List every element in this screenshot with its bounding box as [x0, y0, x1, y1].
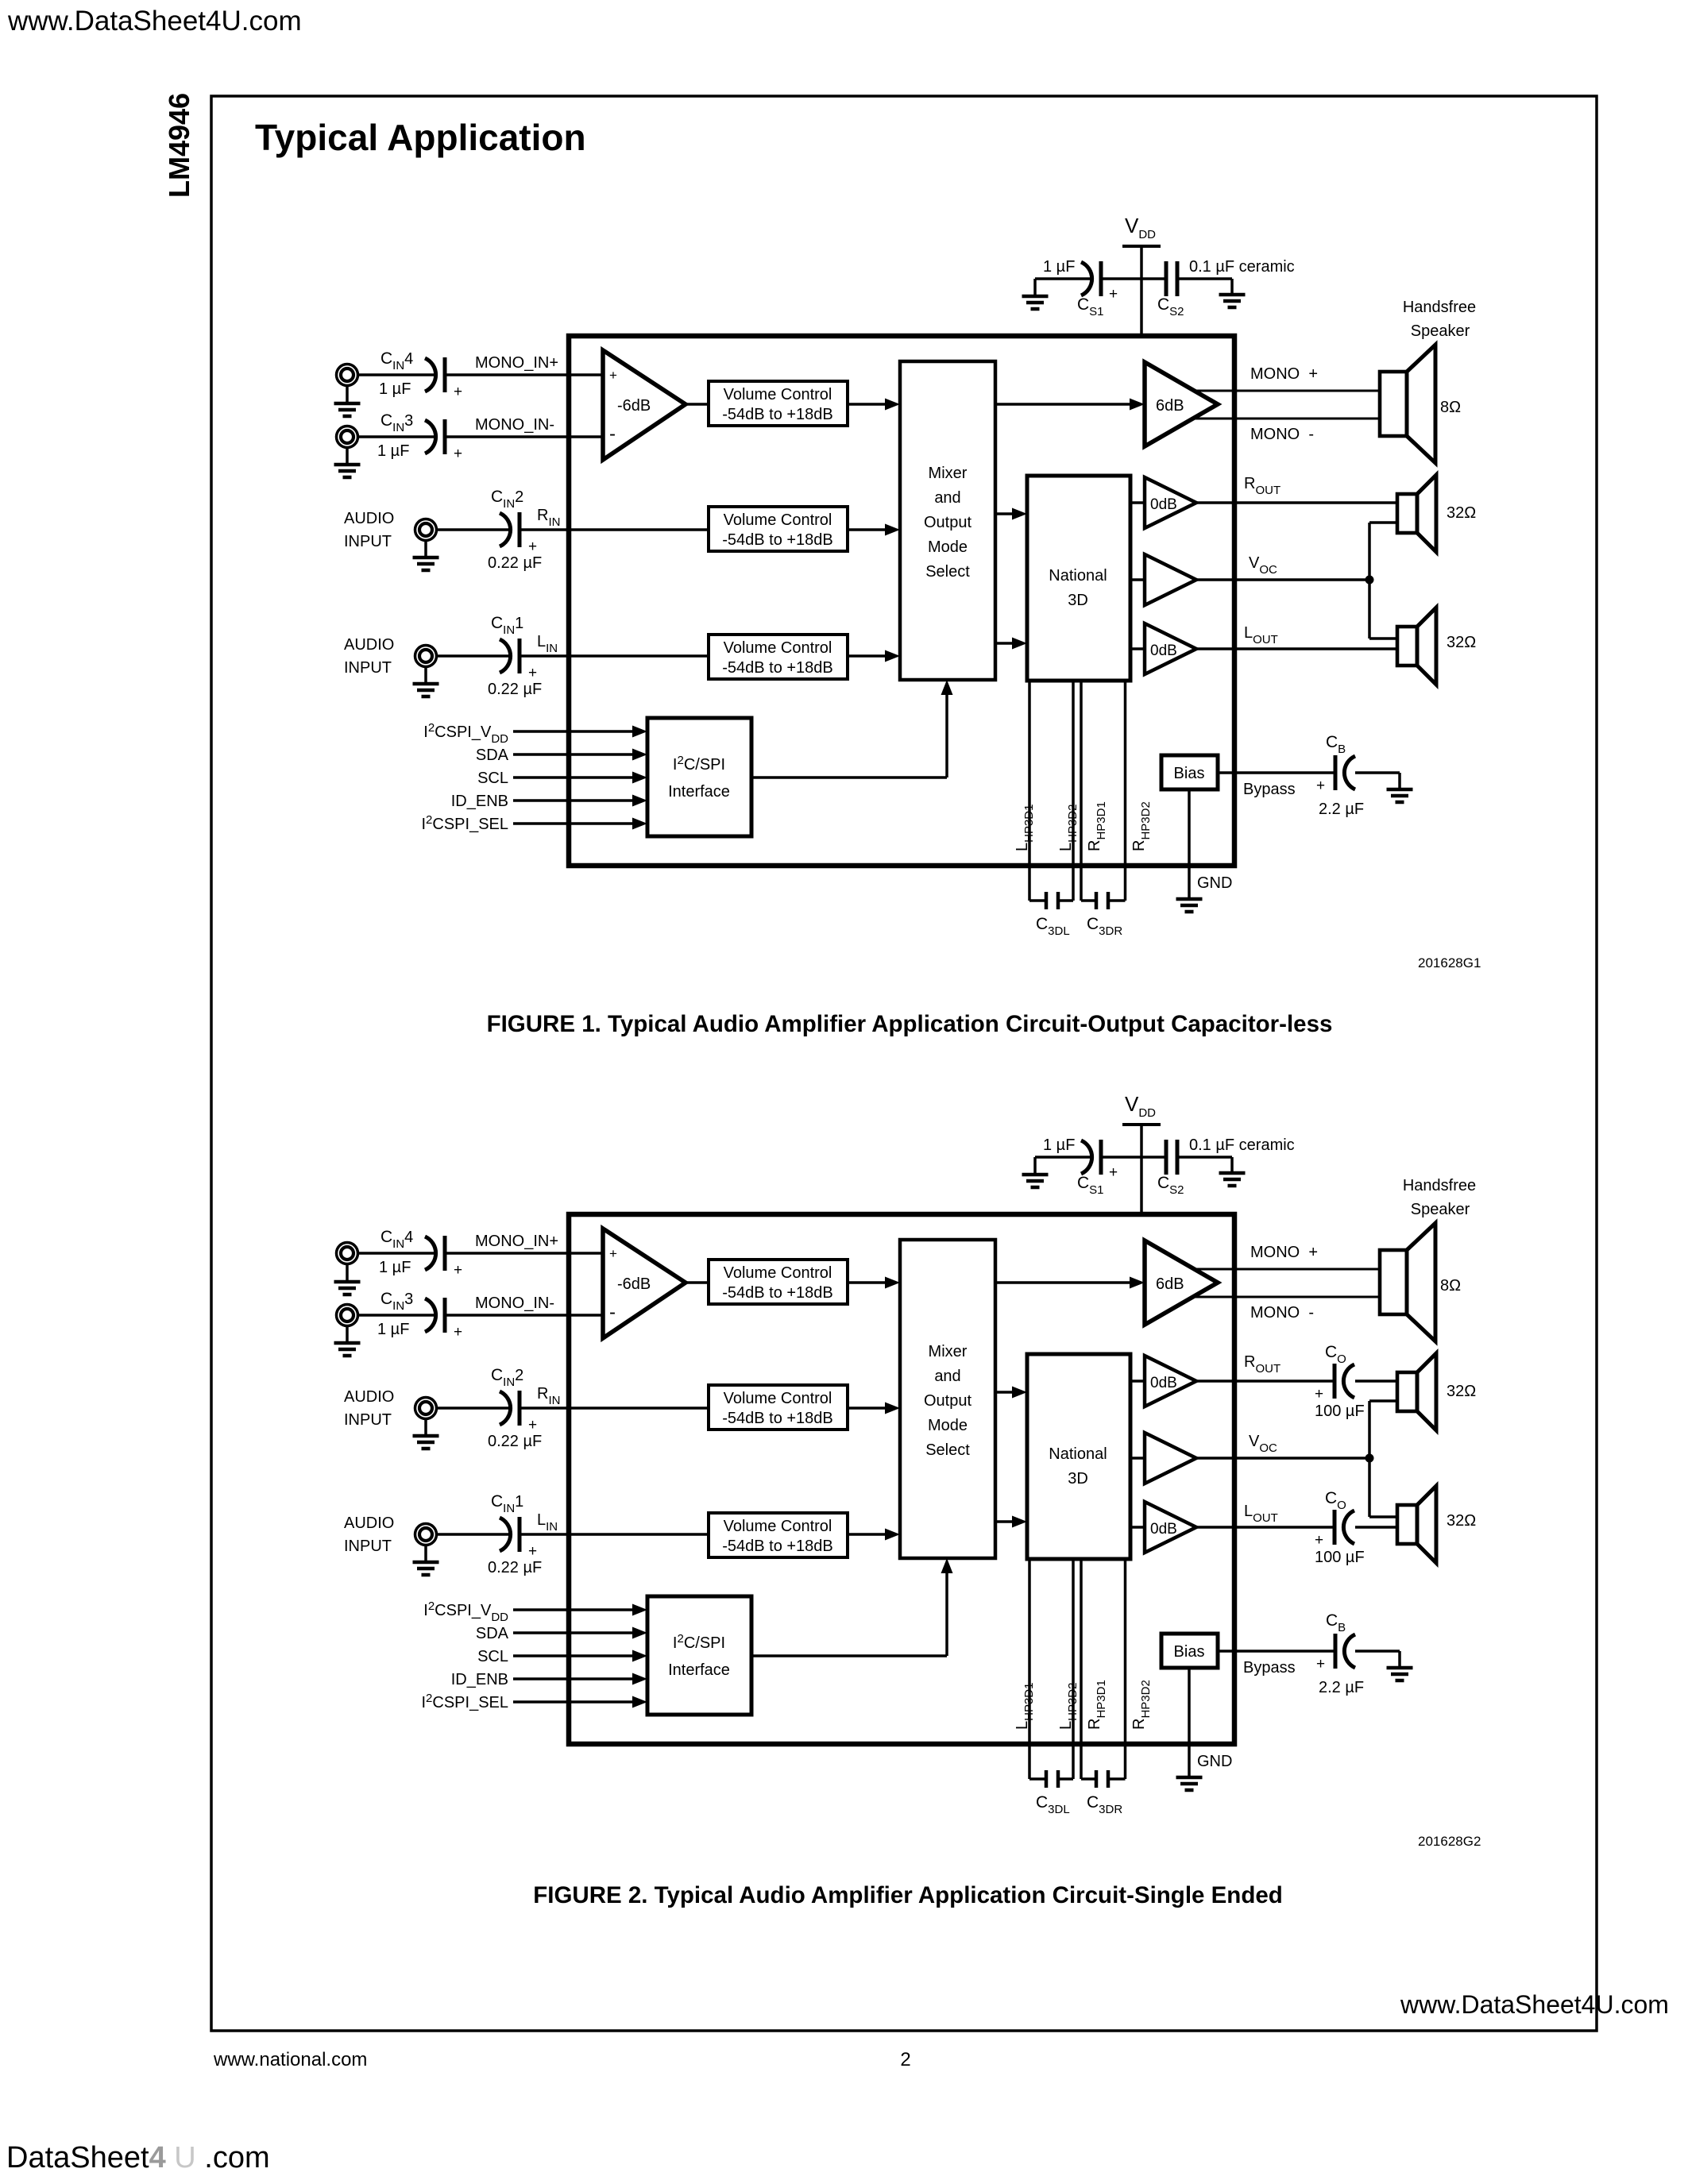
speaker SPK3 32ohm left (fig1): [1397, 608, 1436, 685]
svg-text:INPUT: INPUT: [344, 533, 392, 550]
wire MONO_IN+ (fig1): [445, 373, 603, 376]
ground at CS2 (fig2): [1219, 1157, 1246, 1186]
svg-text:8Ω: 8Ω: [1440, 399, 1461, 416]
wire+arrow mixer to 3D upper (fig1): [995, 512, 1015, 515]
wire Bypass (fig1): [1218, 771, 1335, 774]
wire+arrow VC2 to mixer (fig1): [848, 528, 888, 531]
wire VOC to SPK3 (fig1): [1368, 580, 1371, 639]
svg-text:0.22 µF: 0.22 µF: [488, 681, 542, 698]
capacitor CIN4 (fig1): [425, 357, 445, 392]
svg-text:32Ω: 32Ω: [1447, 504, 1476, 522]
block Volume Control 1 (fig1): [709, 381, 848, 426]
svg-text:+: +: [1109, 286, 1118, 303]
capacitor CS1 (fig2): [1081, 1140, 1101, 1175]
capacitor CB (fig1): [1335, 755, 1355, 790]
pin line LHP3D2 (fig2): [1072, 1559, 1075, 1779]
svg-text:32Ω: 32Ω: [1447, 1383, 1476, 1400]
svg-text:32Ω: 32Ω: [1447, 634, 1476, 651]
capacitor CB (fig2): [1335, 1634, 1355, 1669]
wire+arrow VC2 to mixer (fig2): [848, 1406, 888, 1410]
wire+arrow I2CSPI_SEL input (fig2): [513, 1700, 635, 1704]
svg-text:Handsfree: Handsfree: [1403, 1177, 1476, 1194]
svg-text:+: +: [454, 1262, 462, 1279]
svg-text:AUDIO: AUDIO: [344, 510, 394, 527]
svg-text:www.national.com: www.national.com: [213, 2049, 367, 2070]
ground at J4 (fig1): [334, 385, 361, 416]
svg-text:0dB: 0dB: [1150, 642, 1177, 659]
svg-text:-: -: [609, 423, 616, 445]
svg-text:0dB: 0dB: [1150, 1375, 1177, 1391]
svg-text:INPUT: INPUT: [344, 1411, 392, 1429]
svg-text:SCL: SCL: [477, 1648, 508, 1665]
wire J1 to CIN1 (fig1): [436, 654, 511, 658]
svg-text:Mode: Mode: [928, 538, 968, 556]
svg-text:1 µF: 1 µF: [377, 442, 409, 460]
wire+arrow SDA input (fig2): [513, 1631, 635, 1634]
wire Bypass (fig2): [1218, 1650, 1335, 1653]
svg-text:SDA: SDA: [476, 747, 509, 764]
speaker SPK2 32ohm right (fig1): [1397, 475, 1436, 552]
svg-text:Select: Select: [925, 1441, 970, 1459]
ground at CS2 (fig1): [1219, 279, 1246, 307]
VDD terminal bar (fig2): [1122, 1123, 1161, 1126]
svg-text:Output: Output: [924, 1392, 971, 1410]
svg-text:Volume Control: Volume Control: [724, 386, 832, 403]
pin line RHP3D1 (fig2): [1080, 1559, 1083, 1779]
svg-text:National: National: [1049, 567, 1107, 585]
capacitor CIN1 (fig1): [500, 639, 520, 673]
svg-text:+: +: [1316, 778, 1325, 794]
wire J1 to CIN1 (fig2): [436, 1533, 511, 1536]
wire MONO+ (fig2): [1194, 1268, 1380, 1271]
wire LOUT to CO2 (fig2): [1196, 1526, 1335, 1529]
svg-text:www.DataSheet4U.com: www.DataSheet4U.com: [1400, 1990, 1669, 2019]
input jack J1 LIN (fig1): [415, 646, 437, 667]
block Mixer and Output Mode Select (fig1): [900, 361, 995, 680]
wire VDD vertical (fig2): [1140, 1125, 1143, 1214]
svg-text:+: +: [609, 1246, 617, 1261]
wire A1 out (fig1): [686, 403, 709, 406]
block Volume Control 2 (fig1): [709, 507, 848, 551]
wire Bias to GND (fig1): [1188, 789, 1191, 899]
svg-text:and: and: [934, 1368, 960, 1385]
wire ROUT to CO1 (fig2): [1196, 1379, 1335, 1383]
svg-text:Mixer: Mixer: [929, 1343, 968, 1360]
pin line RHP3D1 (fig1): [1080, 681, 1083, 901]
wire+arrow I2CSPI_SEL input (fig1): [513, 822, 635, 825]
svg-text:MONO_IN+: MONO_IN+: [475, 1233, 558, 1250]
svg-text:National: National: [1049, 1445, 1107, 1463]
capacitor CS1 (fig1): [1081, 261, 1101, 296]
op-amp A4 VOC buffer (fig1): [1145, 554, 1196, 605]
svg-text:AUDIO: AUDIO: [344, 636, 394, 654]
wire 3D to A4 (fig2): [1130, 1457, 1145, 1460]
capacitor CS2 (fig2): [1166, 1140, 1177, 1175]
svg-text:INPUT: INPUT: [344, 659, 392, 677]
svg-text:32Ω: 32Ω: [1447, 1512, 1476, 1530]
svg-text:0.22 µF: 0.22 µF: [488, 554, 542, 572]
wire VDD vertical (fig1): [1140, 246, 1143, 336]
op-amp A1 -6dB (fig1): [603, 350, 686, 460]
block I2C/SPI Interface (fig2): [647, 1596, 751, 1715]
ground at J1 (fig2): [413, 1545, 439, 1575]
svg-text:+: +: [1109, 1164, 1118, 1181]
svg-text:-54dB to +18dB: -54dB to +18dB: [722, 1410, 833, 1427]
wire+arrow SDA input (fig1): [513, 753, 635, 756]
svg-text:0.1 µF ceramic: 0.1 µF ceramic: [1189, 258, 1295, 276]
svg-text:201628G2: 201628G2: [1418, 1834, 1481, 1849]
wire+arrow VC1 to mixer (fig1): [848, 403, 888, 406]
wire MONO- (fig1): [1194, 418, 1380, 420]
svg-text:FIGURE 1. Typical Audio Amplif: FIGURE 1. Typical Audio Amplifier Applic…: [487, 1011, 1333, 1037]
wire+arrow ID_ENB input (fig2): [513, 1677, 635, 1680]
wire RIN (fig1): [520, 528, 709, 531]
svg-text:Bias: Bias: [1174, 765, 1205, 782]
wire MONO_IN- (fig2): [445, 1314, 603, 1317]
svg-text:Speaker: Speaker: [1411, 322, 1470, 340]
ground GND (fig1): [1176, 899, 1203, 912]
svg-text:-54dB to +18dB: -54dB to +18dB: [722, 531, 833, 549]
op-amp A2 6dB (fig2): [1145, 1241, 1218, 1325]
input jack J2 RIN (fig2): [415, 1398, 437, 1419]
wire+arrow VC1 to mixer (fig2): [848, 1281, 888, 1284]
wire CO1 to SPK2 (fig2): [1355, 1379, 1397, 1383]
block I2C/SPI Interface (fig1): [647, 718, 751, 836]
block National 3D (fig2): [1027, 1354, 1130, 1559]
svg-text:0.1 µF ceramic: 0.1 µF ceramic: [1189, 1136, 1295, 1154]
svg-text:ID_ENB: ID_ENB: [451, 1671, 508, 1688]
svg-text:+: +: [528, 665, 537, 681]
svg-text:MONO +: MONO +: [1250, 1244, 1318, 1261]
pin line LHP3D1 (fig1): [1028, 681, 1031, 901]
svg-text:+: +: [1316, 1656, 1325, 1673]
wire 3D to A4 (fig1): [1130, 578, 1145, 581]
svg-text:+: +: [528, 1417, 537, 1433]
svg-text:MONO_IN-: MONO_IN-: [475, 1295, 554, 1312]
junction node VOC (fig1): [1365, 576, 1374, 585]
svg-text:Volume Control: Volume Control: [724, 1518, 832, 1535]
svg-text:GND: GND: [1197, 874, 1232, 892]
IC boundary box U1 (fig2): [569, 1214, 1234, 1744]
svg-text:Volume Control: Volume Control: [724, 1264, 832, 1282]
svg-text:+: +: [1315, 1532, 1323, 1549]
pin line RHP3D2 (fig2): [1124, 1559, 1127, 1779]
svg-text:Volume Control: Volume Control: [724, 511, 832, 529]
wire MONO- (fig2): [1194, 1296, 1380, 1298]
pin line LHP3D1 (fig2): [1028, 1559, 1031, 1779]
svg-text:FIGURE 2. Typical Audio Amplif: FIGURE 2. Typical Audio Amplifier Applic…: [533, 1882, 1283, 1908]
svg-text:+: +: [528, 538, 537, 555]
svg-text:3D: 3D: [1068, 592, 1088, 609]
svg-text:+: +: [454, 384, 462, 400]
svg-text:Bypass: Bypass: [1243, 1659, 1296, 1677]
wire LIN (fig1): [520, 654, 709, 658]
block National 3D (fig1): [1027, 476, 1130, 681]
ground at J2 (fig2): [413, 1418, 439, 1449]
pin line RHP3D2 (fig1): [1124, 681, 1127, 901]
svg-text:+: +: [528, 1543, 537, 1560]
capacitor CO2 (fig2): [1335, 1510, 1354, 1545]
input jack J1 LIN (fig2): [415, 1524, 437, 1545]
block Volume Control 3 (fig1): [709, 635, 848, 679]
svg-text:-: -: [609, 1302, 616, 1323]
capacitor CIN1 (fig2): [500, 1517, 520, 1552]
wire VOC (fig1): [1196, 578, 1369, 581]
speaker SPK2 32ohm right (fig2): [1397, 1353, 1436, 1430]
svg-text:0dB: 0dB: [1150, 496, 1177, 513]
svg-text:-54dB to +18dB: -54dB to +18dB: [722, 659, 833, 677]
svg-text:6dB: 6dB: [1156, 397, 1184, 415]
op-amp A3 0dB right (fig2): [1145, 1356, 1196, 1406]
capacitor CIN3 (fig1): [425, 419, 445, 454]
svg-text:201628G1: 201628G1: [1418, 955, 1481, 970]
VDD terminal bar (fig1): [1122, 245, 1161, 248]
op-amp A5 0dB left (fig1): [1145, 623, 1196, 674]
input jack J4 MONO_IN+ (fig1): [337, 365, 358, 386]
ground at CB (fig1): [1387, 789, 1413, 802]
speaker SPK1 8ohm (fig1): [1380, 345, 1435, 463]
wire LOUT (fig1): [1196, 647, 1397, 650]
svg-text:-6dB: -6dB: [617, 397, 651, 415]
svg-text:+: +: [454, 446, 462, 462]
wire+arrow VC3 to mixer (fig2): [848, 1533, 888, 1536]
svg-text:-54dB to +18dB: -54dB to +18dB: [722, 1538, 833, 1555]
wire J3 to CIN3 (fig2): [357, 1314, 436, 1317]
wire J2 to CIN2 (fig2): [436, 1406, 511, 1410]
svg-text:100 µF: 100 µF: [1315, 1549, 1365, 1566]
svg-text:6dB: 6dB: [1156, 1275, 1184, 1293]
wire+arrow mixer to 3D upper (fig2): [995, 1391, 1015, 1394]
capacitor CIN3 (fig2): [425, 1298, 445, 1333]
wire RIN (fig2): [520, 1406, 709, 1410]
svg-text:8Ω: 8Ω: [1440, 1277, 1461, 1295]
wire Bias to GND (fig2): [1188, 1668, 1191, 1777]
svg-text:www.DataSheet4U.com: www.DataSheet4U.com: [7, 6, 302, 37]
ground at J1 (fig1): [413, 666, 439, 696]
svg-text:1 µF: 1 µF: [379, 380, 411, 398]
wire VOC (fig2): [1196, 1457, 1369, 1460]
wire+arrow SCL input (fig2): [513, 1654, 635, 1657]
wire+arrow mixer to A2 (fig2): [995, 1281, 1133, 1284]
svg-text:1 µF: 1 µF: [1043, 258, 1075, 276]
IC boundary box U1 (fig1): [569, 336, 1234, 866]
capacitor CO1 (fig2): [1335, 1364, 1354, 1399]
input jack J3 MONO_IN- (fig1): [337, 426, 358, 448]
svg-text:AUDIO: AUDIO: [344, 1388, 394, 1406]
svg-text:MONO_IN+: MONO_IN+: [475, 354, 558, 372]
wire+arrow VC3 to mixer (fig1): [848, 654, 888, 658]
capacitor CS2 (fig1): [1166, 261, 1177, 296]
capacitor CIN2 (fig2): [500, 1391, 520, 1426]
wire CO2 to SPK3 (fig2): [1355, 1526, 1397, 1529]
svg-text:SCL: SCL: [477, 770, 508, 787]
svg-text:MONO_IN-: MONO_IN-: [475, 416, 554, 434]
svg-text:-54dB to +18dB: -54dB to +18dB: [722, 406, 833, 423]
speaker SPK3 32ohm left (fig2): [1397, 1486, 1436, 1563]
capacitor CIN4 (fig2): [425, 1236, 445, 1271]
wire J4 to CIN4 (fig1): [357, 373, 436, 376]
wire supply rail left (fig1): [1035, 277, 1091, 280]
capacitor CIN2 (fig1): [500, 512, 520, 547]
svg-text:1 µF: 1 µF: [1043, 1136, 1075, 1154]
wire MONO+ (fig1): [1194, 390, 1380, 392]
svg-text:-54dB to +18dB: -54dB to +18dB: [722, 1284, 833, 1302]
wire supply rail right (fig1): [1179, 277, 1232, 280]
wire VOC to SPK2 (fig1): [1368, 523, 1371, 580]
svg-text:Mode: Mode: [928, 1417, 968, 1434]
svg-text:I2CSPI_SEL: I2CSPI_SEL: [421, 1692, 508, 1711]
svg-text:DataSheet4 U .com: DataSheet4 U .com: [6, 2141, 270, 2174]
wire LIN (fig2): [520, 1533, 709, 1536]
svg-text:and: and: [934, 489, 960, 507]
svg-text:SDA: SDA: [476, 1625, 509, 1642]
wire+arrow mixer to 3D lower (fig1): [995, 642, 1015, 645]
ground at CB (fig2): [1387, 1668, 1413, 1680]
svg-text:2.2 µF: 2.2 µF: [1319, 1679, 1364, 1696]
block Bias (fig1): [1161, 755, 1218, 789]
block Volume Control 1 (fig2): [709, 1260, 848, 1304]
wire MONO_IN- (fig1): [445, 435, 603, 438]
svg-text:Output: Output: [924, 514, 971, 531]
capacitor C3DL (fig1): [1029, 899, 1046, 902]
svg-text:1 µF: 1 µF: [377, 1321, 409, 1338]
svg-text:0dB: 0dB: [1150, 1521, 1177, 1538]
svg-text:MONO -: MONO -: [1250, 1304, 1314, 1322]
wire MONO_IN+ (fig2): [445, 1252, 603, 1255]
wire+arrow I2CSPI_VDD input (fig1): [513, 730, 635, 733]
svg-text:I2CSPI_SEL: I2CSPI_SEL: [421, 813, 508, 833]
svg-text:ID_ENB: ID_ENB: [451, 793, 508, 810]
wire J2 to CIN2 (fig1): [436, 528, 511, 531]
svg-text:+: +: [454, 1324, 462, 1341]
block Bias (fig2): [1161, 1634, 1218, 1668]
svg-text:3D: 3D: [1068, 1470, 1088, 1488]
wire supply rail mid (fig1): [1101, 277, 1165, 280]
ground at CS1 (fig2): [1022, 1157, 1049, 1187]
svg-text:Bypass: Bypass: [1243, 781, 1296, 798]
capacitor C3DL (fig2): [1029, 1777, 1046, 1781]
page frame: [211, 96, 1597, 2031]
wire+arrow SCL input (fig1): [513, 776, 635, 779]
wire supply rail mid (fig2): [1101, 1156, 1165, 1159]
wire supply rail left (fig2): [1035, 1156, 1091, 1159]
svg-text:2: 2: [900, 2049, 910, 2070]
wire CB to ground (fig2): [1355, 1650, 1400, 1653]
wire VOC to SPK2 (fig2): [1368, 1401, 1371, 1458]
svg-text:INPUT: INPUT: [344, 1538, 392, 1555]
op-amp A4 VOC buffer (fig2): [1145, 1433, 1196, 1484]
wire+arrow I2CSPI_VDD input (fig2): [513, 1608, 635, 1611]
svg-text:0.22 µF: 0.22 µF: [488, 1433, 542, 1450]
ground at J2 (fig1): [413, 540, 439, 570]
op-amp A3 0dB right (fig1): [1145, 477, 1196, 528]
wire supply rail right (fig2): [1179, 1156, 1232, 1159]
wire+arrow mixer to A2 (fig1): [995, 403, 1133, 406]
svg-text:Volume Control: Volume Control: [724, 1390, 832, 1407]
svg-text:Interface: Interface: [668, 1661, 730, 1679]
wire 3D to A3 (fig1): [1130, 501, 1145, 504]
ground at CS1 (fig1): [1022, 279, 1049, 309]
svg-text:LM4946: LM4946: [163, 93, 195, 198]
svg-text:MONO +: MONO +: [1250, 365, 1318, 383]
svg-text:0.22 µF: 0.22 µF: [488, 1559, 542, 1576]
svg-text:Interface: Interface: [668, 783, 730, 801]
wire ROUT (fig1): [1196, 501, 1397, 504]
svg-text:+: +: [1315, 1386, 1323, 1403]
op-amp A5 0dB left (fig2): [1145, 1502, 1196, 1553]
block Mixer and Output Mode Select (fig2): [900, 1240, 995, 1558]
wire interface to mixer (fig1): [751, 776, 947, 779]
wire+arrow mixer to 3D lower (fig2): [995, 1520, 1015, 1523]
capacitor C3DR (fig1): [1081, 899, 1096, 902]
ground at J3 (fig2): [334, 1325, 361, 1356]
svg-text:1 µF: 1 µF: [379, 1259, 411, 1276]
input jack J4 MONO_IN+ (fig2): [337, 1243, 358, 1264]
block Volume Control 3 (fig2): [709, 1513, 848, 1557]
wire interface to mixer (fig2): [751, 1654, 947, 1657]
svg-text:Typical Application: Typical Application: [255, 117, 586, 158]
wire 3D to A5 (fig1): [1130, 647, 1145, 650]
wire+arrow ID_ENB input (fig1): [513, 799, 635, 802]
svg-text:Bias: Bias: [1174, 1643, 1205, 1661]
wire J4 to CIN4 (fig2): [357, 1252, 436, 1255]
wire CB to ground (fig1): [1355, 771, 1400, 774]
svg-text:+: +: [609, 368, 617, 383]
wire 3D to A3 (fig2): [1130, 1379, 1145, 1383]
ground at J3 (fig1): [334, 447, 361, 477]
svg-text:Volume Control: Volume Control: [724, 639, 832, 657]
wire J3 to CIN3 (fig1): [357, 435, 436, 438]
svg-text:AUDIO: AUDIO: [344, 1515, 394, 1532]
svg-text:2.2 µF: 2.2 µF: [1319, 801, 1364, 818]
wire A1 out (fig2): [686, 1281, 709, 1284]
ground at J4 (fig2): [334, 1264, 361, 1295]
ground GND (fig2): [1176, 1777, 1203, 1790]
svg-text:-6dB: -6dB: [617, 1275, 651, 1293]
junction node VOC (fig2): [1365, 1454, 1374, 1463]
wire 3D to A5 (fig2): [1130, 1526, 1145, 1529]
op-amp A2 6dB (fig1): [1145, 362, 1218, 446]
svg-text:MONO -: MONO -: [1250, 426, 1314, 443]
svg-text:Mixer: Mixer: [929, 465, 968, 482]
input jack J3 MONO_IN- (fig2): [337, 1305, 358, 1326]
block Volume Control 2 (fig2): [709, 1385, 848, 1430]
capacitor C3DR (fig2): [1081, 1777, 1096, 1781]
svg-text:GND: GND: [1197, 1753, 1232, 1770]
svg-text:Speaker: Speaker: [1411, 1201, 1470, 1218]
op-amp A1 -6dB (fig2): [603, 1229, 686, 1338]
speaker SPK1 8ohm (fig2): [1380, 1223, 1435, 1341]
pin line LHP3D2 (fig1): [1072, 681, 1075, 901]
svg-text:100 µF: 100 µF: [1315, 1403, 1365, 1420]
input jack J2 RIN (fig1): [415, 519, 437, 541]
wire VOC to SPK3 (fig2): [1368, 1458, 1371, 1517]
svg-text:Handsfree: Handsfree: [1403, 299, 1476, 316]
svg-text:Select: Select: [925, 563, 970, 581]
